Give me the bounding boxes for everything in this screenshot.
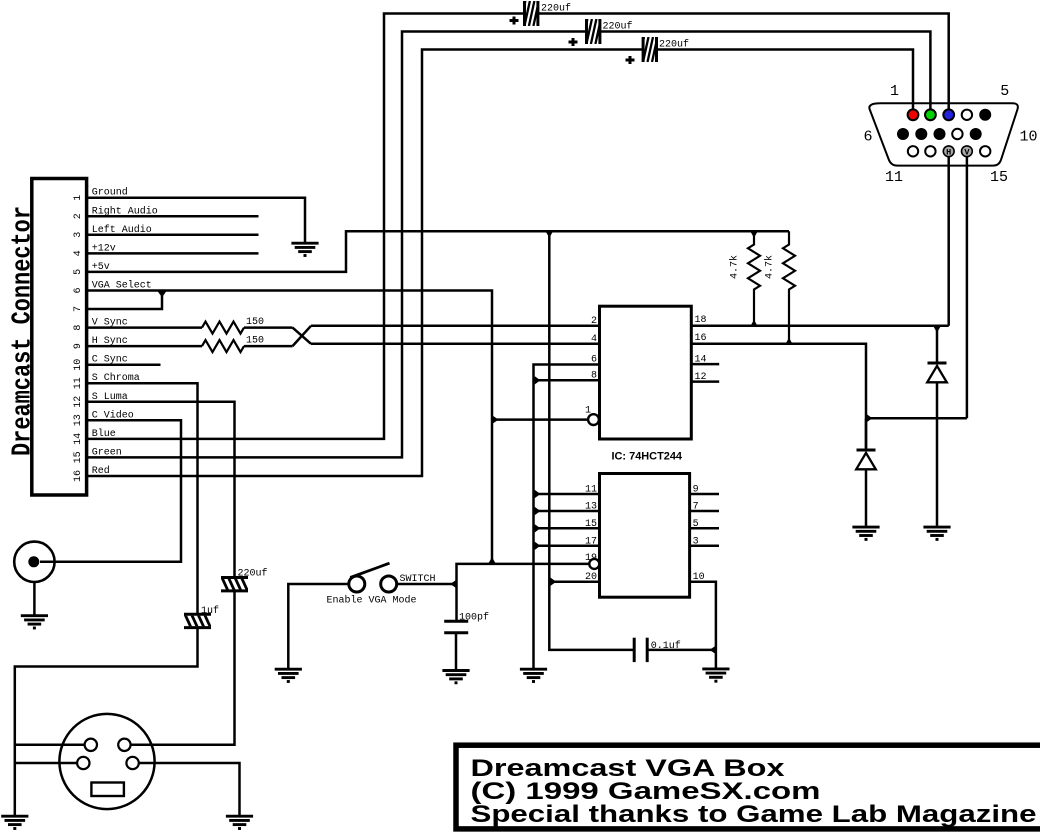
junction rail / R3: [750, 231, 757, 237]
wire pin6 VGA Select: [88, 291, 492, 564]
svg-text:13: 13: [73, 414, 84, 426]
svg-text:5: 5: [1000, 83, 1009, 100]
wire D2 to ground: [936, 382, 939, 526]
svg-text:100pf: 100pf: [459, 612, 489, 624]
svg-text:H: H: [946, 147, 951, 157]
J2 pin 8 filled: [934, 128, 946, 140]
ground GND5 (pin10 / C8): [702, 669, 729, 681]
wire pin4 +12v stub: [88, 252, 259, 255]
wire pin16 Red up-left loop to C6: [88, 50, 643, 477]
capacitor C8 0.1uf: [634, 638, 647, 662]
svg-text:11: 11: [73, 377, 84, 389]
op-amp U1b 74HCT244 buffer block lower: [600, 474, 690, 598]
wire pin2 Right Audio stub: [88, 215, 259, 218]
wire U1b pin19 enable: [457, 564, 590, 584]
svg-text:4: 4: [591, 334, 597, 345]
junction pin7/VGA Select: [158, 292, 166, 298]
resistor R4 4.7k pull-up: [783, 231, 795, 344]
wire D1 branch down: [865, 418, 868, 450]
svg-text:1: 1: [890, 83, 899, 100]
wire C3 down to DIN pin top-right: [130, 591, 234, 745]
wire VGA H pin down to IC1 pin18 net: [947, 157, 950, 326]
ground GND1 (pin1 ground): [291, 243, 318, 255]
wire U1a pin18 to VGA H: [691, 325, 948, 328]
svg-text:11: 11: [885, 169, 903, 186]
wire U1a pin8: [534, 379, 600, 382]
wire C7 to ground: [455, 633, 458, 670]
svg-text:10: 10: [73, 359, 84, 371]
U1b pin number labels: [585, 485, 705, 584]
J2 pin 7 filled: [915, 128, 927, 140]
svg-text:8: 8: [73, 325, 84, 331]
resistor R1 150 (V Sync): [202, 322, 244, 334]
wire U1a pin12 stub: [691, 380, 719, 383]
wire sync to IC1 pin 4: [311, 343, 600, 346]
diode D2: [927, 363, 947, 382]
capacitor C7 100pf: [444, 621, 468, 633]
svg-text:15: 15: [73, 451, 84, 463]
svg-text:6: 6: [73, 287, 84, 293]
capacitor C6 220uf (red line): [639, 37, 663, 62]
ground GND6 (D1): [852, 527, 879, 539]
wire U1b pin7 stub: [690, 510, 719, 513]
junction VGA-select / pin19 line: [488, 557, 495, 563]
wire U1b pin13: [534, 510, 600, 513]
capacitor C3 220uf (S Luma, vertical): [221, 578, 248, 591]
junction U1b pin20: [550, 578, 556, 586]
svg-text:IC: 74HCT244: IC: 74HCT244: [612, 451, 683, 463]
wire U1b pin17: [534, 545, 600, 548]
wire U1b pin5 stub: [690, 527, 719, 530]
svg-text:1: 1: [73, 195, 84, 201]
ground GND9 (DIN left): [1, 816, 28, 828]
wire DIN pin mid-left: [15, 762, 78, 765]
wire U1b pin20: [549, 580, 599, 583]
switch SW1 contacts: [349, 576, 365, 592]
svg-text:6: 6: [863, 129, 872, 146]
wire V node horizontal to VGA V vertical: [866, 417, 967, 420]
J2 pin labels 1 5 6 10 11 15: [863, 83, 1037, 186]
ground GND7 (D2): [923, 527, 950, 539]
wire R1 to crossover: [244, 326, 293, 329]
svg-text:2: 2: [73, 213, 84, 219]
wire D1 to ground: [865, 469, 868, 526]
wire R2 to crossover: [244, 345, 293, 348]
wire U1b pin10 to ground: [690, 582, 716, 668]
wire U1b pin3 stub: [690, 545, 719, 548]
svg-text:Dreamcast Connector: Dreamcast Connector: [9, 206, 39, 456]
J2 pin 3 blue: [943, 109, 954, 120]
wire U1a pin14 stub: [691, 363, 719, 366]
svg-text:7: 7: [73, 306, 84, 312]
J2 pin 4 open: [962, 110, 972, 120]
wire pin14 Blue up-left loop to C4: [88, 14, 525, 439]
wire U1a pin16 to V diode node: [691, 344, 866, 450]
wire pin3 Left Audio stub: [88, 234, 259, 237]
svg-text:V: V: [964, 147, 970, 157]
svg-text:16: 16: [73, 470, 84, 482]
J2 pin 1 red: [908, 109, 919, 120]
J2 pin 2 green: [925, 109, 936, 120]
svg-text:2: 2: [591, 316, 597, 327]
wire C8 to pin10 node: [647, 649, 716, 652]
svg-text:4.7k: 4.7k: [729, 255, 741, 279]
junction SW1 / pin19 / C7: [450, 580, 456, 588]
connector J2 VGA DB15 body: [869, 103, 1018, 165]
J2 pin 13 H sync gray: [943, 146, 954, 157]
svg-text:220uf: 220uf: [238, 568, 268, 580]
ground GND3 (C7): [442, 671, 469, 683]
junction U1a pin8: [535, 376, 541, 384]
wire pin12 S Luma down to C3 220uf: [88, 402, 235, 577]
resistor R3 4.7k pull-up: [748, 231, 760, 326]
J4 pin top-left: [85, 739, 97, 751]
connector J4 DIN body: [59, 714, 154, 809]
wire pin1 Ground to ground symbol: [88, 198, 305, 242]
svg-text:Special thanks to Game Lab Mag: Special thanks to Game Lab Magazine: [471, 801, 1037, 828]
wire C2 down and left to DIN: [15, 628, 198, 815]
J4 pin mid-left: [77, 757, 89, 769]
J2 pin 11 open: [908, 146, 918, 156]
wire to DIN pin top-left: [15, 744, 85, 747]
svg-text:Enable VGA Mode: Enable VGA Mode: [327, 595, 417, 607]
svg-text:4.7k: 4.7k: [764, 255, 776, 279]
wire U1a pin6 from unused-input vertical: [534, 365, 600, 669]
svg-text:4: 4: [73, 250, 84, 256]
svg-text:3: 3: [73, 232, 84, 238]
wire pin5 +5v to pull-up rail: [88, 231, 789, 272]
capacitor C2 1uf (S Chroma, vertical): [184, 614, 211, 627]
svg-text:12: 12: [73, 396, 84, 408]
wire U1b pin11: [534, 493, 600, 496]
junction C8 / pin10 / ground: [710, 646, 716, 654]
svg-text:1uf: 1uf: [201, 605, 219, 617]
ground GND8 (RCA): [21, 616, 48, 628]
J2 pin 10 filled: [970, 128, 982, 140]
op-amp U1a 74HCT244 buffer block upper: [600, 306, 692, 439]
ground GND2 (switch): [275, 669, 302, 681]
junction pin18 wire / diode D2 branch: [933, 326, 940, 332]
wire pin13 C Video to RCA: [40, 420, 181, 562]
svg-text:9: 9: [73, 343, 84, 349]
J2 pin 14 V sync gray: [962, 146, 973, 157]
junction U1b pin11: [535, 490, 541, 498]
J4 pin mid-right: [126, 757, 138, 769]
wire pin8 V Sync to resistor: [88, 326, 202, 329]
wire SW1 left to ground: [288, 584, 349, 668]
wire SW1 right to pin19 node: [397, 583, 457, 586]
junction U1b pin15: [535, 524, 541, 532]
junction V node corner: [867, 414, 873, 422]
wire D2 branch down: [936, 326, 939, 363]
U1a pin number labels: [585, 315, 707, 417]
svg-text:5: 5: [73, 269, 84, 275]
wire VGA V pin down to diode node: [966, 157, 969, 418]
ground GND4 (unused inputs): [520, 669, 547, 681]
vertical +5v feed to U1b pin20: [549, 231, 634, 650]
capacitor C5 220uf (green line): [582, 19, 606, 44]
J1 pin numbers 1-16: [73, 195, 84, 482]
connector J1 Dreamcast Connector body: [9, 179, 87, 496]
U1a pin1 bubble: [588, 414, 599, 425]
junction U1a pin1 enable: [493, 416, 499, 424]
wire C5 to VGA green pin: [600, 32, 931, 110]
wire pin11 S Chroma down to C2 1uf: [88, 383, 198, 614]
J3 center pin: [28, 556, 39, 567]
J2 pin 15 open: [980, 146, 990, 156]
svg-text:18: 18: [695, 315, 707, 326]
switch SW1 lever: [350, 563, 389, 577]
wire DIN pin mid-right to ground: [139, 763, 240, 815]
wire J3 shell to ground: [33, 582, 36, 615]
junction U1b pin13: [535, 507, 541, 515]
J2 pin 5 filled: [979, 109, 991, 121]
U1b pin19 bubble: [589, 559, 599, 569]
svg-text:16: 16: [695, 333, 707, 344]
svg-text:10: 10: [1019, 129, 1037, 146]
wire pin10 C Sync stub: [88, 363, 161, 366]
junction R4 / pin16 wire: [785, 338, 792, 344]
ground GND10 (DIN right): [226, 816, 253, 828]
wire pin7 up to VGA Select: [88, 291, 162, 310]
wire node down to C7: [455, 584, 458, 621]
title block border: [456, 745, 1040, 829]
wire C6 to VGA red pin: [657, 50, 914, 110]
wire pin9 H Sync to resistor: [88, 345, 202, 348]
junction U1b pin17: [535, 542, 541, 550]
wire sync to IC1 pin 2: [311, 325, 600, 328]
J4 key slot: [91, 783, 124, 797]
J4 pin top-right: [118, 739, 130, 751]
J2 pin 12 open: [925, 146, 935, 156]
J2 pin 9 open: [952, 129, 962, 139]
wire U1a pin1 enable: [492, 418, 588, 421]
wire U1b pin15: [534, 527, 600, 530]
J2 pin 6 filled: [897, 128, 909, 140]
connector J3 RCA body: [14, 542, 54, 582]
J1 pin net labels: [92, 187, 158, 477]
crossover X of sync lines: [293, 328, 312, 344]
capacitor C4 220uf (blue line): [520, 1, 544, 26]
wire pin15 Green up-left loop to C5: [88, 32, 587, 458]
wire U1b pin9 stub: [690, 493, 719, 496]
resistor R2 150 (H Sync): [202, 340, 244, 352]
diode D1: [856, 450, 876, 469]
svg-text:14: 14: [73, 433, 84, 445]
wire C4 to VGA blue pin: [538, 14, 949, 110]
svg-text:15: 15: [990, 169, 1008, 186]
junction rail / +5v feed: [546, 231, 553, 237]
junction R3 / pin18 wire: [750, 320, 757, 326]
